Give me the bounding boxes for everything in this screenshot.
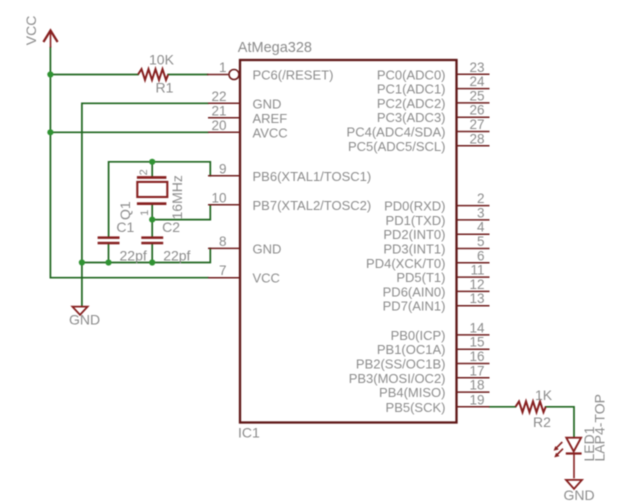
- svg-text:PD3(INT1): PD3(INT1): [383, 242, 445, 257]
- svg-text:PD2(INT0): PD2(INT0): [383, 227, 445, 242]
- svg-text:17: 17: [469, 363, 484, 378]
- svg-text:PC0(ADC0): PC0(ADC0): [377, 67, 446, 82]
- svg-text:PB6(XTAL1/TOSC1): PB6(XTAL1/TOSC1): [253, 169, 372, 184]
- svg-text:9: 9: [219, 161, 227, 176]
- svg-text:PC5(ADC5/SCL): PC5(ADC5/SCL): [348, 139, 446, 154]
- svg-text:C2: C2: [162, 219, 180, 235]
- svg-text:PC4(ADC4/SDA): PC4(ADC4/SDA): [347, 125, 446, 140]
- svg-text:C1: C1: [116, 219, 134, 235]
- svg-text:25: 25: [469, 88, 484, 103]
- svg-text:15: 15: [469, 335, 484, 350]
- svg-text:12: 12: [469, 277, 484, 292]
- svg-text:PB1(OC1A): PB1(OC1A): [377, 342, 446, 357]
- svg-text:R2: R2: [533, 414, 551, 430]
- svg-text:28: 28: [469, 131, 484, 146]
- svg-text:PD0(RXD): PD0(RXD): [384, 199, 445, 214]
- svg-text:21: 21: [211, 103, 226, 118]
- svg-text:10K: 10K: [149, 52, 175, 68]
- svg-text:AREF: AREF: [253, 111, 288, 126]
- svg-text:GND: GND: [253, 241, 282, 256]
- svg-text:20: 20: [211, 118, 226, 133]
- svg-text:11: 11: [470, 263, 484, 278]
- svg-text:18: 18: [469, 378, 484, 393]
- svg-text:4: 4: [477, 220, 485, 235]
- svg-text:AVCC: AVCC: [253, 125, 288, 140]
- svg-text:PD7(AIN1): PD7(AIN1): [383, 299, 446, 314]
- svg-text:2: 2: [477, 191, 485, 206]
- svg-text:PB2(SS/OC1B): PB2(SS/OC1B): [356, 357, 446, 372]
- svg-text:PB4(MISO): PB4(MISO): [379, 385, 445, 400]
- svg-text:10: 10: [211, 190, 226, 205]
- svg-text:22: 22: [211, 89, 226, 104]
- svg-text:23: 23: [469, 60, 484, 75]
- svg-text:PC3(ADC3): PC3(ADC3): [377, 110, 446, 125]
- svg-text:PB3(MOSI/OC2): PB3(MOSI/OC2): [349, 371, 446, 386]
- svg-text:16: 16: [469, 349, 484, 364]
- svg-text:PD6(AIN0): PD6(AIN0): [383, 284, 446, 299]
- svg-text:3: 3: [477, 205, 485, 220]
- svg-text:8: 8: [219, 234, 227, 249]
- svg-text:24: 24: [469, 74, 485, 89]
- svg-text:PC1(ADC1): PC1(ADC1): [377, 82, 446, 97]
- svg-text:VCC: VCC: [23, 16, 39, 46]
- svg-text:GND: GND: [564, 487, 595, 503]
- svg-text:22pf: 22pf: [163, 247, 190, 263]
- svg-text:PB7(XTAL2/TOSC2): PB7(XTAL2/TOSC2): [253, 198, 372, 213]
- svg-text:1: 1: [219, 60, 227, 75]
- svg-text:2: 2: [138, 169, 150, 175]
- svg-text:26: 26: [469, 103, 484, 118]
- svg-text:AtMega328: AtMega328: [238, 40, 312, 56]
- svg-text:7: 7: [219, 263, 227, 278]
- svg-text:16MHz: 16MHz: [169, 175, 185, 219]
- svg-text:PC6(/RESET): PC6(/RESET): [253, 68, 334, 83]
- svg-text:1: 1: [139, 210, 151, 216]
- svg-text:5: 5: [477, 234, 485, 249]
- svg-text:13: 13: [469, 291, 484, 306]
- svg-text:PB5(SCK): PB5(SCK): [386, 400, 446, 415]
- svg-text:GND: GND: [253, 96, 282, 111]
- svg-text:PD4(XCK/T0): PD4(XCK/T0): [366, 256, 445, 271]
- svg-text:IC1: IC1: [238, 425, 260, 441]
- svg-text:19: 19: [469, 392, 484, 407]
- svg-text:GND: GND: [69, 312, 100, 328]
- svg-text:PD5(T1): PD5(T1): [396, 270, 445, 285]
- svg-text:R1: R1: [156, 79, 174, 95]
- svg-text:PC2(ADC2): PC2(ADC2): [377, 96, 446, 111]
- svg-text:Q1: Q1: [117, 201, 133, 220]
- svg-text:14: 14: [469, 320, 485, 335]
- svg-text:LAP4-TOP: LAP4-TOP: [592, 394, 608, 461]
- svg-text:6: 6: [477, 248, 485, 263]
- svg-text:27: 27: [469, 117, 484, 132]
- svg-text:22pf: 22pf: [120, 247, 147, 263]
- svg-text:PD1(TXD): PD1(TXD): [386, 213, 446, 228]
- svg-text:PB0(ICP): PB0(ICP): [391, 328, 446, 343]
- svg-text:1K: 1K: [535, 387, 553, 403]
- svg-text:VCC: VCC: [253, 271, 280, 286]
